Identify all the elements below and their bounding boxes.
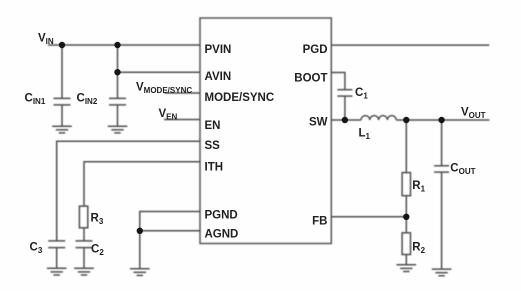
wire EN stub [164, 119, 200, 121]
wire MODE/SYNC stub [165, 92, 201, 94]
capacitor CIN1 [54, 98, 71, 126]
svg-text:AGND: AGND [205, 229, 239, 241]
wire AVIN [118, 71, 201, 73]
resistor R1 [402, 173, 410, 196]
wire PGND [140, 212, 200, 269]
ground under COUT [432, 269, 452, 276]
svg-text:MODE/SYNC: MODE/SYNC [205, 92, 275, 104]
wire AGND [140, 230, 200, 232]
svg-text:C2: C2 [91, 244, 104, 258]
wire CIN2 vertical [117, 45, 119, 98]
svg-text:VEN: VEN [159, 108, 178, 122]
wire ITH horizontal [84, 162, 200, 206]
node junction FB divider [403, 214, 409, 220]
wire FB [331, 216, 406, 218]
ground under CIN1 [52, 126, 72, 133]
node junction L1 out [403, 117, 409, 123]
svg-text:C3: C3 [30, 242, 43, 256]
wire down to R1 [405, 120, 407, 173]
wire R3 to C2 [83, 228, 85, 241]
ground under CIN2 [108, 126, 128, 133]
node junction AGND [137, 228, 143, 234]
wire BOOT [331, 73, 345, 90]
svg-text:VIN: VIN [38, 33, 54, 47]
svg-text:PVIN: PVIN [205, 44, 232, 56]
svg-text:R1: R1 [412, 180, 425, 194]
svg-text:FB: FB [312, 215, 327, 227]
ground under AGND [130, 269, 150, 276]
wire R2 to ground [405, 255, 407, 265]
svg-text:SS: SS [205, 140, 221, 152]
svg-text:BOOT: BOOT [294, 73, 327, 85]
node junction AVIN branch [114, 69, 120, 75]
ground under C3 [47, 268, 67, 275]
resistor R2 [402, 233, 410, 255]
resistor R3 [79, 206, 87, 228]
svg-text:AVIN: AVIN [205, 71, 232, 83]
wire SW [331, 119, 361, 121]
capacitor C2 [76, 241, 93, 268]
svg-text:CIN2: CIN2 [77, 93, 98, 107]
ground under R2 [397, 265, 417, 272]
svg-text:VMODE/SYNC: VMODE/SYNC [136, 82, 192, 96]
op-amp U1 [200, 18, 331, 244]
capacitor C1 [337, 90, 352, 120]
svg-text:PGD: PGD [303, 44, 328, 56]
wire R1 to FB node [405, 196, 407, 233]
capacitor COUT [434, 166, 449, 269]
svg-text:VOUT: VOUT [461, 107, 486, 121]
ground under C2 [74, 268, 94, 275]
wire CIN1 vertical [61, 45, 63, 98]
svg-text:R3: R3 [91, 213, 104, 227]
svg-text:L1: L1 [359, 128, 371, 142]
svg-text:CIN1: CIN1 [25, 93, 46, 107]
wire down to COUT [441, 120, 443, 166]
svg-text:COUT: COUT [450, 163, 475, 177]
wire PGD [331, 44, 489, 46]
wire L1 to VOUT [396, 119, 489, 121]
wire VIN to PVIN [48, 44, 200, 46]
node junction COUT branch [438, 117, 444, 123]
svg-text:SW: SW [309, 116, 328, 128]
node junction SW-C1 [342, 117, 348, 123]
svg-text:ITH: ITH [205, 162, 224, 174]
node junction VIN-CIN1 [59, 42, 65, 48]
node junction VIN-CIN2 [114, 42, 120, 48]
svg-text:EN: EN [205, 120, 221, 132]
inductor L1 [361, 116, 396, 120]
capacitor CIN2 [109, 98, 126, 126]
svg-text:C1: C1 [355, 87, 368, 101]
wire SS horizontal [57, 141, 200, 240]
svg-text:PGND: PGND [205, 209, 238, 221]
capacitor C3 [48, 241, 65, 268]
svg-text:R2: R2 [412, 242, 425, 256]
